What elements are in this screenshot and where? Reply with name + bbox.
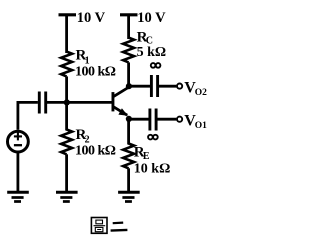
wire RE to ground: [127, 168, 130, 191]
wire base node to transistor base: [67, 101, 112, 104]
wire R1 to base node: [65, 76, 68, 103]
resistor R2: [61, 130, 72, 155]
label 10 V left: [77, 10, 106, 26]
resistor R1: [61, 52, 72, 77]
infinity label (C3): [148, 135, 158, 140]
wire V_O1 branch: [129, 118, 149, 121]
wire V_O2 branch: [129, 85, 150, 88]
wire VS to ground: [16, 152, 19, 192]
source plus sign: [14, 132, 22, 140]
value label 100 kOhm (R2): [75, 144, 116, 159]
node emitter junction dot: [126, 116, 132, 122]
source minus sign: [14, 144, 22, 146]
wire supply-left to R1: [65, 15, 68, 53]
svg-text:5 kΩ: 5 kΩ: [137, 45, 167, 60]
resistor RC: [123, 38, 134, 63]
wire C1 to base node: [46, 101, 67, 104]
wire base node to R2: [65, 102, 68, 130]
infinity label (C2): [151, 63, 161, 68]
capacitor C2 (to V_O2): [151, 75, 157, 97]
wire C3 to terminal: [156, 118, 176, 121]
capacitor C1 (input, infinity): [39, 92, 45, 114]
value label 5 kOhm: [137, 45, 167, 60]
ground (source): [7, 192, 29, 201]
wire R2 to ground: [65, 154, 68, 191]
svg-text:10 kΩ: 10 kΩ: [134, 161, 171, 176]
wire emitter node to RE: [127, 119, 130, 145]
label R1: [76, 48, 90, 67]
wire RC to collector node: [127, 62, 130, 86]
label 10 V right: [137, 10, 166, 26]
caption glyph TU (figure): [91, 218, 107, 234]
supply bar VCC left: [59, 13, 77, 16]
node A junction dot (base node): [64, 99, 70, 105]
node collector junction dot: [126, 83, 132, 89]
svg-text:100 kΩ: 100 kΩ: [75, 144, 116, 159]
svg-text:10 V: 10 V: [77, 10, 106, 26]
value label 10 kOhm: [134, 161, 171, 176]
wire input corner horizontal: [18, 102, 38, 129]
transistor Q1 collector stroke: [114, 87, 129, 96]
wire supply-right to RC: [127, 15, 130, 39]
svg-text:O2: O2: [195, 88, 207, 98]
label R2: [76, 127, 90, 146]
source VS circle: [8, 131, 29, 152]
svg-text:E: E: [143, 151, 150, 162]
supply bar VCC right: [120, 13, 138, 16]
ground (R2): [56, 192, 78, 201]
terminal V_O1 circle: [177, 117, 182, 122]
label V_O1: [184, 112, 207, 131]
label V_O2: [184, 79, 207, 98]
capacitor C3 (to V_O1): [150, 109, 156, 131]
svg-text:O1: O1: [195, 121, 207, 131]
resistor RE: [123, 144, 134, 169]
terminal V_O2 circle: [177, 84, 182, 89]
wire C2 to terminal: [158, 85, 177, 88]
caption glyph ER (two): [111, 223, 128, 231]
ground (RE): [118, 192, 140, 201]
value label 100 kOhm (R1): [75, 64, 116, 79]
label RC: [137, 29, 153, 46]
svg-text:100 kΩ: 100 kΩ: [75, 64, 116, 79]
label RE: [134, 144, 150, 162]
transistor Q1 emitter stroke with arrow: [114, 107, 128, 116]
transistor Q1 base bar: [112, 92, 115, 111]
svg-text:10 V: 10 V: [137, 10, 166, 26]
